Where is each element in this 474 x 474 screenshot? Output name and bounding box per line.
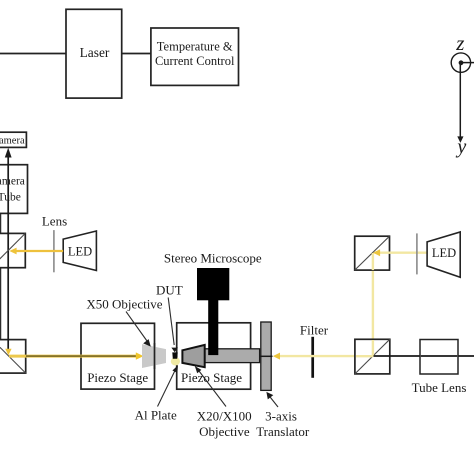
piezo stage right box: [177, 323, 251, 389]
beam down into cube2: [5, 349, 11, 356]
svg-text:Lens: Lens: [42, 214, 67, 229]
beam splitter cube 3 (bottom right): [355, 339, 390, 374]
svg-text:Camera: Camera: [0, 136, 25, 147]
svg-text:Camera: Camera: [0, 176, 25, 188]
camera box (clipped at left edge): [0, 132, 26, 147]
svg-text:Filter: Filter: [300, 323, 329, 338]
svg-text:Al Plate: Al Plate: [135, 408, 177, 423]
arrow into camera: [5, 148, 12, 158]
svg-text:y: y: [455, 136, 466, 158]
svg-text:z: z: [455, 31, 464, 55]
tube lens box: [412, 340, 467, 396]
lens right: [416, 233, 418, 274]
svg-text:Tube: Tube: [0, 191, 21, 203]
LED left: [63, 231, 96, 271]
svg-text:3-axis: 3-axis: [265, 409, 297, 424]
svg-text:Piezo Stage: Piezo Stage: [181, 370, 242, 385]
rail line along left edge: [0, 214, 2, 373]
imaging path cube3 to tube lens: [374, 355, 474, 357]
gray support bar: [205, 349, 260, 363]
laser box: [66, 9, 122, 98]
DUT chip: [172, 352, 177, 358]
diagonal of cube 2: [0, 340, 26, 374]
beam segment inside cube 4: [372, 253, 374, 270]
lens left: [53, 230, 55, 272]
piezo stage left right edge over objective: [154, 343, 156, 369]
redraw beams inside cube3: [372, 340, 374, 357]
svg-text:Piezo Stage: Piezo Stage: [87, 370, 148, 385]
svg-text:X20/X100: X20/X100: [197, 409, 252, 424]
beam LED1 to cube1: [9, 248, 63, 255]
svg-text:X50 Objective: X50 Objective: [86, 296, 162, 311]
svg-text:LED: LED: [68, 245, 92, 259]
wire laser left: [0, 53, 66, 55]
beam cube2 to X50 objective: [9, 352, 144, 359]
X50 objective: [142, 344, 166, 368]
wire laser to controller: [122, 53, 151, 55]
stereo microscope: [164, 251, 262, 356]
beam cube3 to translator: [273, 353, 373, 360]
beam splitter cube 2 (left, lower): [0, 340, 26, 374]
svg-text:Objective: Objective: [199, 424, 250, 439]
svg-text:Laser: Laser: [80, 45, 110, 60]
svg-text:Current Control: Current Control: [155, 54, 235, 68]
LED right: [427, 232, 460, 277]
3-axis translator bar: [261, 322, 271, 390]
label Al Plate with leader: [135, 365, 178, 422]
svg-text:Tube Lens: Tube Lens: [412, 380, 467, 395]
svg-text:Stereo Microscope: Stereo Microscope: [164, 251, 262, 266]
beam splitter cube 1 (left, upper): [0, 233, 25, 267]
label X50 objective with leader: [86, 296, 162, 346]
beam LED2 to cube4: [373, 249, 427, 256]
svg-text:LED: LED: [432, 246, 456, 260]
svg-text:DUT: DUT: [156, 283, 183, 298]
al plate blob: [171, 357, 180, 365]
temperature and current control box: [151, 28, 239, 85]
svg-text:Temperature &: Temperature &: [157, 40, 233, 54]
black axis through translator: [259, 355, 273, 357]
piezo stage left box: [81, 323, 155, 389]
X20/X100 objective: [182, 345, 204, 367]
camera tube box (clipped at left edge): [0, 165, 28, 214]
label X20/X100 objective with leader: [195, 366, 252, 439]
vertical imaging path to camera: [7, 156, 9, 352]
label 3-axis translator with leader: [256, 392, 310, 439]
vertical beam cube4 to cube3: [372, 253, 374, 356]
diagonal of cube 1: [0, 233, 25, 267]
coordinate axes z out of page, y down: [451, 31, 474, 158]
label DUT with leader: [156, 283, 183, 353]
filter element: [311, 337, 314, 378]
beam splitter cube 4 (top right): [355, 236, 390, 270]
svg-text:Translator: Translator: [256, 424, 310, 439]
